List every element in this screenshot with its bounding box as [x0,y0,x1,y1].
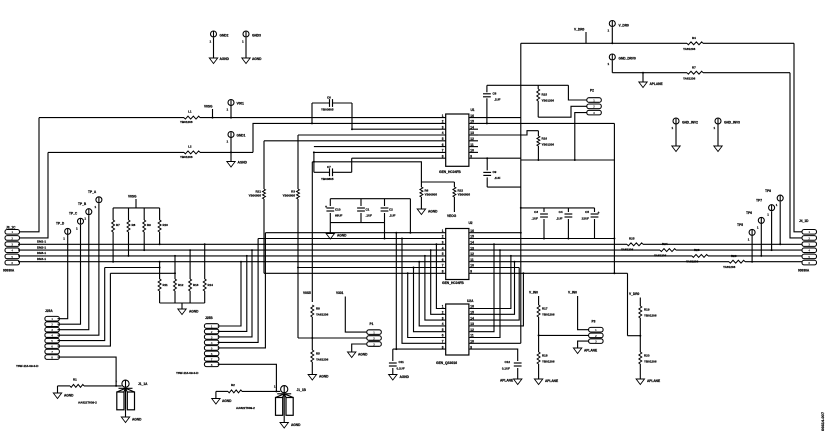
svg-text:2: 2 [211,330,213,334]
wire C9 bottom [487,186,521,188]
wire bus DM2-1 right half [469,249,802,251]
wire J3 pin1 to L1 net [20,118,40,232]
svg-text:GND2: GND2 [220,34,229,38]
svg-text:V001: V001 [237,102,245,106]
svg-text:1: 1 [274,385,276,389]
svg-text:2: 2 [593,105,595,109]
wire GND2 to ground [213,38,215,58]
svg-text:C6: C6 [327,96,331,100]
svg-text:U2: U2 [469,221,473,225]
svg-text:AGND: AGND [358,353,368,357]
svg-text:1: 1 [767,213,769,217]
svg-text:DM3-1: DM3-1 [37,251,46,255]
svg-text:YB00805: YB00805 [321,108,334,112]
svg-text:2: 2 [11,236,13,240]
ground under GND_INV3 [714,146,722,152]
wire bus DM3-1 right half [469,255,802,257]
svg-text:J1_1A: J1_1A [138,382,148,386]
svg-text:GND_DRV0: GND_DRV0 [619,57,637,61]
capacitor C10 polarized [329,199,331,206]
svg-text:22UF: 22UF [582,216,590,220]
svg-text:YB00805: YB00805 [248,194,261,198]
svg-text:YA61206: YA61206 [683,76,696,80]
wire U2A pin5 elbow [414,268,446,332]
svg-text:YA61206: YA61206 [316,312,329,316]
svg-text:5: 5 [808,255,810,259]
svg-text:R11: R11 [163,283,169,287]
svg-text:C9: C9 [493,170,497,174]
wire R11-R14 bottom rail [160,302,205,304]
svg-text:R8: R8 [132,223,136,227]
svg-text:J4_1D: J4_1D [799,219,809,223]
wire net VD01 horizontal [39,117,446,119]
wire cap bank1 riser to U2 pin1 [409,199,411,233]
wire bus line6 left segment [110,272,175,274]
svg-text:06614-007: 06614-007 [820,411,825,431]
testpoint TP_C [78,218,84,224]
wire bus DM1-1 [18,243,446,245]
wire J25B pin3 riser [218,250,252,337]
svg-text:1: 1 [227,108,229,112]
svg-text:1: 1 [593,98,595,102]
svg-text:AGND: AGND [238,161,248,165]
resistor R22 [453,182,455,187]
svg-text:C4: C4 [559,210,563,214]
svg-text:.1UF: .1UF [494,97,501,101]
svg-text:7: 7 [51,350,53,354]
wire U2 pin10 wrap to U2A pin14 [469,267,519,269]
svg-text:5: 5 [211,346,213,350]
svg-text:AA822T609-2: AA822T609-2 [236,406,255,410]
svg-text:J25B: J25B [205,316,213,320]
capacitor C11 [392,349,394,361]
svg-text:1: 1 [95,205,97,209]
svg-text:AGND: AGND [222,399,232,403]
svg-text:V_DR0: V_DR0 [629,292,640,296]
testpoint TP6 [758,217,764,223]
svg-text:R10: R10 [163,223,169,227]
svg-text:V0S5: V0S5 [303,291,311,295]
svg-text:1: 1 [227,140,229,144]
svg-text:1: 1 [608,29,610,33]
svg-text:4: 4 [211,341,213,345]
resistor R4 [687,39,703,48]
svg-text:C2: C2 [389,208,393,212]
resistor R23 [692,252,708,261]
svg-text:1: 1 [84,217,86,221]
testpoint TP_B [86,209,92,215]
wire U2 pin15 rail [469,238,615,240]
svg-text:R7: R7 [692,65,696,69]
wire U2A pin3 elbow [425,256,446,320]
testpoint TP_D [65,228,71,234]
wire U2A pin1 elbow [436,244,445,308]
svg-text:TP8: TP8 [765,189,771,193]
wire J25A pin6 riser [58,273,111,346]
wire GND_DRV0 to J4 pin2 [790,73,802,238]
wire V_DR0 testpoint stem [611,27,613,43]
svg-text:AA822T609-2: AA822T609-2 [78,401,97,405]
testpoint GND_INV2 [673,118,679,124]
svg-text:APLANE: APLANE [584,349,597,353]
ground AGND left of R1 [53,393,61,399]
wire SMA J1_1A stem [125,410,127,417]
resistor R8A [128,208,130,220]
capacitor C12 [514,362,522,364]
svg-text:AGND: AGND [291,423,301,427]
wire C6 left leg [311,103,313,123]
svg-text:AGND: AGND [400,375,410,379]
wire bus line6 [264,272,446,274]
svg-text:14: 14 [470,241,474,245]
wire J3 pin2 to L2 net [20,152,49,238]
svg-text:1: 1 [595,328,597,332]
resistor R21 [263,141,265,189]
wire cap bank1 ground stem [329,223,331,234]
svg-text:1: 1 [51,317,53,321]
resistor R12 [174,256,176,279]
svg-text:+: + [598,211,600,215]
svg-text:YB01206: YB01206 [180,155,193,159]
wire C7 right leg [351,158,353,172]
svg-text:R7: R7 [116,223,120,227]
svg-text:8: 8 [442,270,444,274]
wire cap bank1 to U2 pin2 [384,223,386,239]
svg-text:13: 13 [470,246,474,250]
svg-text:1: 1 [242,40,244,44]
svg-text:GND_INV3: GND_INV3 [724,121,740,125]
svg-text:15: 15 [470,235,474,239]
svg-text:1: 1 [808,230,810,234]
svg-text:R1: R1 [73,378,77,382]
svg-text:GND_INV2: GND_INV2 [682,121,698,125]
wire V_DR0 vertical column [520,43,522,343]
svg-text:AGND: AGND [64,394,74,398]
wire node to P3 pin2 [539,334,589,336]
svg-text:5: 5 [51,339,53,343]
svg-text:V_IN0: V_IN0 [568,291,577,295]
wire cap bank1 bottom rail [330,222,384,224]
svg-text:+: + [325,205,327,209]
svg-text:YB01206: YB01206 [644,359,657,363]
wire U1 pin4 line [298,134,446,136]
svg-text:C8: C8 [493,92,497,96]
svg-text:AGND: AGND [189,310,199,314]
capacitor C1 [360,199,362,206]
svg-text:C1: C1 [366,208,370,212]
wire GND_INV3 stem [717,124,719,146]
wire GND_DRV0 rail [611,61,613,73]
wire U2A pin12 riser [469,244,494,331]
svg-text:5: 5 [11,255,13,259]
svg-text:C3: C3 [534,210,538,214]
svg-text:1: 1 [210,40,212,44]
svg-text:.1UF: .1UF [531,216,538,220]
svg-text:J1_1B: J1_1B [297,388,307,392]
wire R1 to AGND [57,386,59,393]
ground AGND left of R2 [212,399,220,405]
ground AGND under GND3 [242,58,250,64]
wire bus DM3-1 [18,255,446,257]
svg-text:2: 2 [51,323,53,327]
capacitor C3 [543,208,545,212]
svg-text:YB01206: YB01206 [542,312,555,316]
wire U1 pin9 line [469,157,521,159]
svg-text:68UF: 68UF [335,213,343,217]
wire C8 rail to P2 pin1 [568,85,586,100]
svg-text:L2: L2 [188,144,192,148]
testpoint GND_DRV0 [609,54,615,60]
svg-text:P3: P3 [592,320,596,324]
svg-text:V0SG: V0SG [204,105,213,109]
svg-text:V_IN0: V_IN0 [529,291,538,295]
svg-text:2: 2 [442,120,444,124]
wire U1 pin3 line [352,128,446,130]
resistor R7 [687,68,703,77]
svg-text:11: 11 [470,258,474,262]
testpoint GND1 [228,132,234,138]
svg-text:C5: C5 [585,210,589,214]
svg-text:1: 1 [608,62,610,66]
svg-text:R14: R14 [208,283,214,287]
wire U1 pin10-14 stubs [469,128,478,130]
svg-text:3: 3 [11,243,13,247]
svg-text:AGND: AGND [252,57,262,61]
op-amp U2 GEN_HC04FB [446,229,469,280]
testpoint V_DR0 [609,21,615,27]
ground AGND under C11 [389,375,397,381]
ground APLANE P3 pin3 [573,348,581,354]
svg-text:.1UF: .1UF [556,216,563,220]
svg-text:1: 1 [672,126,674,130]
svg-text:V_DR0: V_DR0 [619,23,630,27]
svg-text:.1UF: .1UF [494,176,501,180]
svg-text:4: 4 [808,249,810,253]
ground APLANE under C12 [514,379,522,385]
wire net GND1 horizontal [48,151,253,153]
node V0SG rail [113,207,160,209]
wire P1 pin3 ground [352,344,367,352]
wire R2 to AGND [215,391,217,398]
ground AGND under R6 [417,209,425,215]
resistor R18 [537,352,540,364]
wire R15 bottom to P2 pin2 [538,106,587,117]
svg-text:4: 4 [51,334,53,338]
svg-text:V301: V301 [336,291,344,295]
svg-text:YA61206: YA61206 [683,47,696,51]
wire bus line5 left segment [105,267,160,269]
resistor R3 [297,135,299,189]
wire U2A pin11 riser [469,250,500,337]
svg-text:YB01206: YB01206 [542,98,555,102]
wire TP5 stem [751,236,753,262]
wire U2A pin8 elbow [393,348,446,350]
wire P3 pin3 ground [578,341,589,348]
wire TP_B to J25A pin3 [58,215,89,329]
wire L2 jog up to U1 pin2 [253,123,446,152]
svg-text:GEN_QS3016: GEN_QS3016 [436,361,457,365]
wire J25A pin8 drop [58,357,117,386]
resistor R17 [537,305,540,317]
wire cap bank top rail [521,207,595,209]
capacitor C2 [384,199,386,206]
ground APLANE under R20 [636,379,644,385]
svg-text:0.1UF: 0.1UF [397,366,405,370]
resistor R16 [469,131,539,135]
svg-text:AGND: AGND [132,418,142,422]
resistor R7A [112,208,114,220]
svg-text:AGND: AGND [428,210,438,214]
wire R6 to R22 rail [421,181,454,183]
svg-text:R5: R5 [316,352,320,356]
svg-text:1: 1 [76,226,78,230]
svg-text:YB01206: YB01206 [542,359,555,363]
svg-text:3: 3 [211,335,213,339]
wire U2A pin2 elbow [431,250,446,314]
svg-text:TP6: TP6 [746,211,752,215]
svg-text:TP_C: TP_C [69,212,78,216]
wire U2A pin4 elbow [419,262,446,326]
wire V_DR0 column to U2 pin16 [469,232,521,234]
inductor L2 [184,148,200,157]
wire TP7 stem [771,211,773,250]
resistor R26 [729,257,745,266]
svg-text:APLANE: APLANE [500,379,513,383]
wire U2A pin7 elbow [402,239,446,344]
svg-text:.1UF: .1UF [389,213,396,217]
testpoint V001 [228,100,234,106]
wire U2A pin9 to C12 [469,349,518,361]
svg-text:YB00805: YB00805 [282,194,295,198]
svg-text:1: 1 [714,126,716,130]
svg-text:R17: R17 [542,307,548,311]
wire U2 pin1 line [265,232,445,234]
wire U2 pin11 wrap to U2A pin15 [469,262,515,315]
ground AGND under R5 [308,375,316,381]
svg-text:6: 6 [51,345,53,349]
ground AGND under J1_1B [280,423,288,429]
ground AGND P1 pin3 [348,352,356,358]
svg-text:R26: R26 [731,254,737,258]
op-amp U1 GEN_HC04FB [446,114,469,166]
resistor R24 [660,246,676,255]
svg-text:16: 16 [470,229,474,233]
svg-text:YA61206: YA61206 [723,265,736,269]
svg-text:DM2-1: DM2-1 [37,245,46,249]
svg-text:Y6W-114-09-0-D: Y6W-114-09-0-D [176,371,199,375]
svg-text:C10: C10 [335,208,341,212]
svg-text:2: 2 [373,336,375,340]
ground AGND under J1_1A [121,417,129,423]
svg-text:6: 6 [211,352,213,356]
wire U2A pin6 elbow [408,273,446,337]
svg-text:2: 2 [808,236,810,240]
wire J25B pin2 riser [218,256,247,332]
ground AGND cap bank1 [326,234,334,240]
svg-text:C7: C7 [327,165,331,169]
svg-text:6: 6 [442,258,444,262]
svg-text:00930A: 00930A [3,269,15,273]
svg-text:6: 6 [808,261,810,265]
wire bus line5 [298,267,446,269]
svg-text:YB01206: YB01206 [542,142,555,146]
svg-text:1: 1 [757,225,759,229]
svg-text:1: 1 [442,114,444,118]
testpoint GND3 [243,31,249,37]
resistor R9A [143,208,145,220]
svg-text:3: 3 [595,340,597,344]
svg-text:TP_A: TP_A [88,190,97,194]
svg-text:3: 3 [51,328,53,332]
svg-text:1: 1 [211,324,213,328]
svg-text:U1: U1 [471,108,475,112]
wire TP_D to J25A pin1 [58,235,68,319]
svg-text:7: 7 [442,264,444,268]
wire V001 stem [230,106,232,118]
svg-text:AGND: AGND [319,375,329,379]
wire bus DM4-1 right half [469,261,802,263]
svg-text:1: 1 [11,230,13,234]
wire U2 pin12 wrap to U2A pin16 [469,256,511,309]
wire J25A pin5 riser [58,268,105,341]
resistor R13 [189,250,191,279]
wire U1 pin8 line [352,157,446,159]
svg-text:C11: C11 [399,360,405,364]
wire bus DM2-1 [18,249,446,251]
svg-text:0.1UF: 0.1UF [502,366,510,370]
svg-text:12: 12 [470,252,474,256]
wire U2 pin9 wrap to U2A pin13 [469,272,628,274]
svg-text:R8: R8 [316,307,320,311]
SMA connector J1_1B [281,386,288,393]
svg-text:GEN_HC04FB: GEN_HC04FB [439,170,461,174]
svg-text:4: 4 [11,249,13,253]
svg-text:AGND: AGND [337,234,347,238]
svg-text:J25A: J25A [45,309,53,313]
resistor R11 [159,262,161,279]
svg-text:3: 3 [442,241,444,245]
inductor L1 [184,113,200,122]
wire TP_A to J25A pin4 [58,203,99,335]
svg-text:DM1-1: DM1-1 [37,240,46,244]
wire bus DM1-1 right half [469,243,802,245]
svg-text:1: 1 [115,379,117,383]
wire net V0S5 riser [311,244,313,302]
testpoint TP5 [749,229,755,235]
wire U1 pin7 line [314,151,446,153]
svg-text:YB00805: YB00805 [458,192,471,196]
wire J25B pin1 riser [218,262,241,326]
svg-text:P1: P1 [370,322,374,326]
capacitor C9 [486,158,488,170]
svg-text:YB00805: YB00805 [425,192,438,196]
svg-text:4: 4 [442,246,444,250]
svg-text:Y6W-114-09-0-D: Y6W-114-09-0-D [16,364,39,368]
resistor R20 [639,352,642,364]
resistor R25 [627,240,643,249]
svg-text:R2: R2 [231,383,235,387]
svg-text:GND1: GND1 [237,134,246,138]
svg-text:6: 6 [11,261,13,265]
wire GND1 stem [230,138,232,162]
wire J25B pin4 riser [218,239,258,343]
wire C8 top rail [487,84,569,86]
svg-text:APLANE: APLANE [647,379,660,383]
svg-text:R16: R16 [542,137,548,141]
testpoint GND2 [211,31,217,37]
svg-text:1: 1 [776,203,778,207]
wire net V_DR0 rail [521,42,794,44]
